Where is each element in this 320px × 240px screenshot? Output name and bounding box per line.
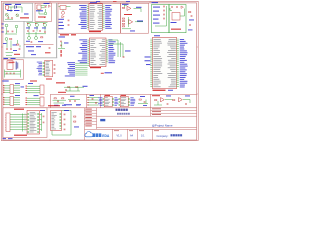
net label	[188, 29, 193, 32]
title block right table rows	[151, 109, 197, 111]
IC U14 body	[51, 111, 62, 131]
connector J6	[40, 97, 44, 106]
pin marks red col	[25, 113, 26, 132]
IC U9 pin names left col	[153, 38, 160, 41]
section box power-in A	[4, 3, 33, 21]
IC U9 left net labels sparse	[145, 56, 151, 59]
net label row	[7, 10, 13, 11]
net label	[15, 94, 20, 97]
net label	[2, 81, 9, 82]
capacitor C19	[19, 48, 21, 50]
capacitor C3	[45, 5, 47, 7]
net label	[70, 95, 75, 98]
connector J3	[10, 85, 14, 94]
frame tick marks	[1, 1, 198, 140]
cluster right (138-148,97-106)	[139, 99, 141, 100]
net label VIN	[5, 4, 12, 5]
net label	[3, 42, 7, 45]
resistor network R4-R7	[122, 18, 124, 19]
title block horizontal y=127.3	[97, 126, 197, 128]
RF module U5	[172, 13, 180, 21]
IC U11 right pins	[128, 97, 130, 106]
label red G2	[171, 29, 181, 30]
red pin marks	[27, 22, 29, 25]
wire	[17, 40, 19, 44]
capacitor C6	[7, 30, 9, 32]
IC U6 left pins	[88, 39, 90, 66]
capacitor column right of U7	[54, 64, 56, 66]
capacitor bank	[27, 30, 29, 32]
wire down	[51, 131, 53, 136]
resistor R17	[17, 44, 19, 45]
IC U6 pin names	[90, 39, 95, 42]
diode D2	[62, 16, 64, 18]
op-amp U4A	[127, 6, 131, 10]
transistor Q10	[15, 25, 18, 28]
IC U9 right pins	[177, 39, 179, 88]
transistor Q2	[16, 14, 19, 17]
resistor R15	[54, 98, 56, 99]
IC U14 right pins	[60, 112, 62, 129]
wire right	[41, 113, 43, 131]
label red	[14, 54, 20, 55]
wire	[170, 10, 172, 12]
resistor column	[61, 50, 62, 53]
wire	[135, 21, 143, 23]
MCU U2 body	[89, 4, 103, 31]
right table field labels red	[152, 108, 161, 109]
IC U13 left pins	[27, 112, 29, 133]
net labels	[28, 82, 33, 85]
resistor R16	[62, 98, 64, 99]
label red	[56, 82, 65, 83]
label red part	[45, 52, 51, 53]
regulator U3	[60, 6, 66, 10]
wire	[45, 9, 47, 12]
cell header labels red	[114, 129, 119, 132]
title block left table rows	[85, 109, 97, 111]
connector U7 body	[45, 60, 53, 77]
transistor Q4	[28, 24, 31, 27]
resistor R3	[122, 7, 124, 8]
red tick	[101, 72, 104, 75]
transistor Q6	[44, 24, 47, 27]
IC U13 body	[27, 111, 40, 135]
label red top	[14, 109, 24, 110]
connector J2	[37, 5, 41, 10]
net label	[36, 10, 43, 11]
net label	[105, 72, 113, 73]
net label	[83, 85, 88, 88]
label part number red	[90, 67, 101, 68]
section green module box G2	[169, 5, 186, 33]
resistor R9	[68, 87, 70, 88]
label red top	[48, 105, 60, 106]
IC U9 pin names right col	[169, 38, 176, 41]
net label	[64, 103, 72, 106]
capacitor C5	[49, 47, 51, 49]
IC U6 body	[90, 38, 107, 67]
label part number red	[153, 90, 166, 91]
capacitor C1	[7, 17, 9, 19]
label red above line	[58, 92, 66, 93]
IC U10 right labels	[114, 96, 117, 99]
connector J1	[6, 6, 9, 9]
MCU U2 left net labels	[79, 4, 86, 7]
svg-text:@Project Name: @Project Name	[152, 123, 173, 127]
label red	[9, 61, 15, 64]
resistor R14	[74, 121, 76, 122]
capacitor C15	[167, 103, 169, 105]
IC U10 left labels	[98, 96, 102, 99]
capacitor bank G1	[163, 6, 165, 8]
antenna component	[171, 6, 173, 8]
net label	[64, 109, 69, 112]
net label	[166, 95, 171, 98]
connector J4	[10, 97, 14, 106]
connector U7 pins	[43, 61, 45, 76]
resistor R12	[173, 100, 175, 101]
title block left edge	[84, 108, 86, 140]
IC U10 left pins	[103, 97, 105, 106]
transistor Q3	[44, 12, 47, 15]
net labels	[13, 44, 18, 47]
capacitor C9	[68, 19, 70, 21]
resistor R13	[74, 116, 76, 117]
wire	[61, 42, 63, 48]
section box MCU-top	[58, 3, 121, 33]
capacitor right col	[43, 115, 45, 117]
wire	[41, 5, 47, 7]
title block right table vertical x=150.5	[150, 108, 152, 116]
net label	[122, 4, 129, 5]
connector U7 labels	[37, 61, 42, 64]
IC U13 right pins	[37, 112, 39, 133]
wire	[70, 111, 72, 136]
section row boxes above title	[50, 93, 196, 95]
svg-text:EDA: EDA	[102, 134, 110, 138]
IC U6 right pins	[106, 39, 108, 63]
capacitor C20	[191, 15, 193, 17]
wire bus	[28, 27, 30, 30]
doc subtitle text	[117, 113, 119, 115]
wire	[165, 99, 173, 101]
polarized capacitor C8	[62, 11, 65, 14]
label red	[38, 17, 45, 18]
net label below	[168, 89, 173, 92]
title block horizontal y=116.2	[97, 115, 197, 117]
label part number red	[89, 31, 101, 32]
wire	[53, 99, 67, 101]
IC U10 body	[104, 96, 112, 106]
label red above U10	[105, 95, 111, 96]
IC U6 right net labels	[109, 38, 113, 41]
IC U13 pin names	[30, 111, 36, 114]
transistor Q9	[5, 24, 8, 27]
svg-text:1/1: 1/1	[141, 135, 145, 138]
label red under line	[60, 34, 69, 35]
IC U11 pin names	[121, 96, 126, 99]
net label top	[90, 2, 97, 3]
logo cloud icon	[85, 131, 93, 136]
op-amp U12B	[179, 98, 183, 102]
resistor R8	[189, 12, 191, 13]
label red below U7	[46, 79, 52, 80]
capacitor C12	[60, 40, 62, 42]
section divider full width above title block	[3, 107, 197, 109]
net label	[44, 3, 50, 4]
section box B	[35, 3, 52, 21]
label red	[124, 14, 132, 15]
net label col	[2, 23, 4, 26]
IC U10 right pins	[112, 97, 114, 106]
transistor Q8	[35, 37, 38, 40]
svg-text:V1.0: V1.0	[117, 135, 123, 138]
capacitor C14	[65, 89, 67, 91]
power module U8	[7, 61, 13, 70]
wire	[59, 6, 61, 8]
connector J7	[6, 113, 10, 132]
op-amp U4B	[129, 20, 133, 25]
capacitor C7	[6, 48, 8, 50]
transistor Q1	[5, 13, 8, 16]
bottom band cell dividers	[111, 129, 113, 140]
IC U9 body	[153, 37, 177, 88]
resistor R2	[10, 38, 12, 39]
left table red field labels	[85, 109, 92, 110]
highlighted date value	[100, 119, 105, 121]
IC U11 left pins	[119, 97, 121, 106]
label red	[152, 95, 160, 96]
section green module box G1	[152, 5, 170, 33]
net labels	[15, 82, 20, 85]
box2 wire rows	[88, 97, 99, 99]
IC U14 pin names	[51, 111, 56, 114]
connector J5	[40, 85, 44, 95]
title block vertical x=96.5	[96, 108, 98, 130]
label red bottom	[14, 135, 27, 136]
battery BT1	[14, 5, 16, 9]
label red above U11	[121, 95, 127, 96]
net label	[137, 21, 143, 22]
wire	[64, 86, 84, 88]
wire	[166, 6, 168, 26]
capacitor C18	[92, 97, 94, 99]
resistor R10	[76, 87, 78, 88]
section box opamp-top	[121, 3, 149, 33]
label red	[30, 81, 37, 82]
logo text JLCEDA	[93, 133, 96, 137]
IC U9 right net labels	[180, 38, 184, 41]
svg-text:Company:: Company:	[157, 134, 169, 138]
net label VBUS	[15, 4, 21, 5]
capacitor C17	[69, 100, 71, 102]
grey divider line vertical x=24	[23, 21, 25, 57]
grey divider line horizontal y=57.8	[3, 57, 57, 59]
connector U7 pin names	[46, 60, 50, 63]
net label	[90, 94, 95, 97]
wire	[9, 6, 15, 8]
transistor Q7	[28, 37, 31, 40]
MCU U2 right net labels	[105, 4, 111, 7]
capacitor C10	[189, 24, 191, 26]
IC U10 pin names	[105, 96, 108, 99]
capacitor C11	[123, 56, 125, 58]
MCU U2 right pins	[103, 5, 105, 30]
net label	[59, 36, 66, 39]
wire	[6, 27, 8, 34]
diode D1	[49, 5, 51, 7]
wire	[5, 71, 21, 73]
wire rows	[4, 97, 10, 99]
section box power L1	[3, 60, 24, 79]
grey divider line vertical x=56.6	[56, 3, 58, 58]
resistor R1	[41, 37, 43, 38]
wire	[68, 98, 80, 100]
IC U11 body	[120, 96, 128, 106]
sheet inner border frame	[3, 3, 197, 140]
net label	[24, 14, 29, 15]
net label	[171, 21, 177, 24]
net label	[136, 7, 142, 8]
net label rows	[26, 46, 34, 47]
capacitor C2	[11, 17, 13, 19]
capacitor C16	[57, 100, 59, 102]
transistor Q11	[5, 38, 8, 41]
net label	[54, 104, 59, 107]
sheet outer border frame	[1, 1, 198, 140]
wire bundle	[22, 114, 24, 132]
net label rows	[59, 18, 65, 21]
section line transistor array bottom	[24, 43, 54, 45]
capacitor column	[64, 113, 66, 115]
wire	[6, 41, 8, 48]
resistor R11	[155, 100, 157, 101]
wire	[134, 8, 142, 10]
net labels above L1	[4, 57, 9, 60]
MCU U2 pin names	[90, 4, 95, 7]
IC U9 left pins	[150, 39, 152, 88]
label 5V0-SYS red	[20, 17, 29, 18]
capacitor C13	[6, 72, 8, 74]
section box bottom-left module	[3, 108, 47, 138]
net label below box	[8, 137, 13, 140]
inductor L1	[15, 62, 17, 70]
IC U6 left net labels lower	[67, 61, 75, 64]
wire rows	[4, 85, 10, 87]
net flag specks on top frame	[96, 0, 100, 3]
wire fan to U6 lower pins	[75, 62, 87, 76]
box2 red ticks	[87, 96, 88, 99]
wire	[7, 16, 9, 17]
transistor Q5	[36, 24, 39, 27]
op-amp U12A	[161, 98, 165, 102]
wire bundle right of U6	[117, 40, 119, 57]
net label	[125, 50, 131, 53]
net label above G1	[152, 2, 159, 3]
net label right edge	[189, 19, 194, 22]
wire rows	[27, 97, 40, 99]
doc title text blue CJK	[116, 109, 118, 111]
net label above	[154, 34, 160, 37]
wire rows	[27, 85, 40, 87]
net label right	[40, 109, 45, 112]
net label rows G1	[153, 6, 160, 9]
MCU U2 left pins	[87, 5, 89, 30]
capacitor C4	[44, 16, 46, 18]
IC U6 left net labels upper	[79, 38, 87, 41]
IC U11 right labels	[130, 96, 133, 99]
net labels	[26, 27, 30, 30]
title block horizontal y=129.3	[85, 128, 197, 130]
